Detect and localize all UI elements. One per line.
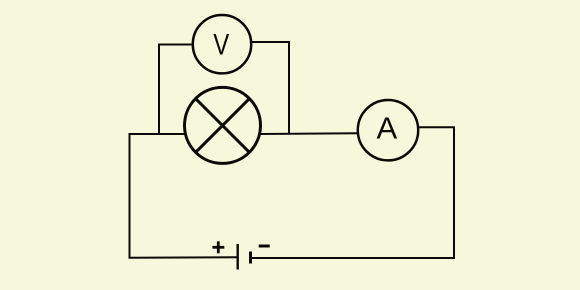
battery positive plate (long) [236, 244, 238, 270]
voltmeter V1 [193, 15, 251, 73]
lamp L1 [185, 87, 261, 163]
wire: ammeter right terminal down right rail to battery negative plate [251, 127, 454, 258]
label - [259, 245, 270, 248]
lamp cross diagonal 1 [195, 98, 249, 152]
svg-text:A: A [377, 111, 398, 146]
wire: lamp right terminal through node B to ammeter left terminal [260, 132, 358, 135]
voltmeter circle [193, 15, 251, 73]
label + [212, 241, 224, 253]
ammeter A1 [358, 100, 418, 160]
wire: voltmeter right lead (V right side down to node B) [252, 42, 289, 134]
svg-text:V: V [213, 27, 229, 61]
wire: voltmeter left lead (V left side down to node A) [159, 45, 192, 134]
lamp cross diagonal 2 [195, 98, 249, 152]
wire: node A through left rail to battery positive plate [130, 134, 238, 258]
battery negative plate (short) [249, 252, 252, 264]
battery B1 [212, 241, 269, 269]
lamp circle [185, 87, 261, 163]
ammeter circle [358, 100, 418, 160]
